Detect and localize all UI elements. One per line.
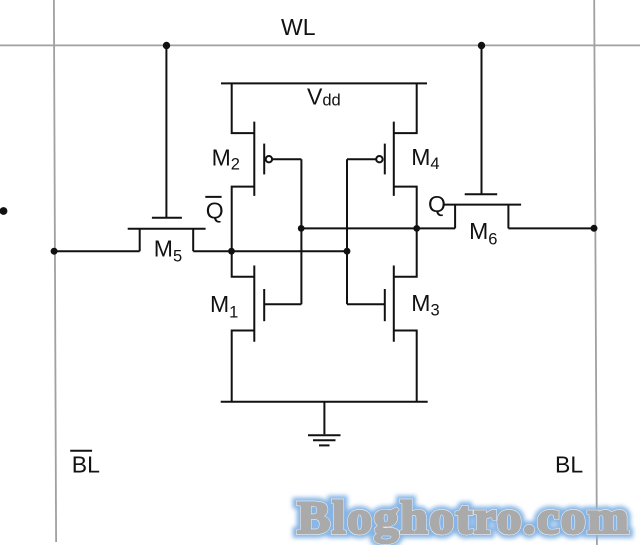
wire M3 gate lead [347, 303, 385, 305]
wire M5 left lead to BLbar [54, 250, 140, 252]
svg-text:M4: M4 [411, 144, 439, 173]
transistor M6 (pass NMOS) [443, 45, 521, 228]
watermark Bloghotro.com [297, 492, 630, 543]
ground rail [221, 401, 428, 403]
transistor M5 (pass NMOS) [128, 45, 206, 251]
wire M2 drain to node Qbar [232, 187, 255, 277]
ground [308, 402, 341, 446]
svg-text:M6: M6 [469, 218, 497, 249]
transistor M2 (PMOS) [254, 122, 272, 196]
wire M4 drain to node Q [394, 187, 417, 277]
wire M4 source column [394, 83, 417, 133]
junction dot M6-BL [591, 225, 598, 232]
junction dot BLbar-M5 [51, 248, 58, 255]
svg-text:Vdd: Vdd [307, 84, 341, 110]
bit line BLbar (left vertical) [54, 0, 56, 542]
svg-text:BL: BL [72, 452, 100, 478]
word line WL [0, 44, 640, 46]
wire left gate column [300, 159, 302, 304]
wire lower cross-couple rail (node Qbar) [193, 250, 347, 252]
wire M2 source column [232, 83, 255, 133]
svg-text:M3: M3 [411, 290, 439, 320]
wire M3 source to ground rail [394, 331, 417, 402]
svg-text:M5: M5 [154, 235, 182, 265]
junction dot node Qbar [228, 248, 235, 255]
svg-text:M2: M2 [212, 144, 240, 173]
junction dot lower rail gate column [344, 248, 351, 255]
junction dot upper rail gate column [298, 225, 305, 232]
Vdd rail [221, 82, 427, 84]
svg-text:M1: M1 [210, 291, 238, 322]
junction dot left edge [0, 207, 7, 215]
wire M1 source to ground rail [232, 331, 255, 402]
wire M4 gate lead [347, 158, 376, 160]
wire M6 right lead to BL [508, 227, 594, 229]
svg-text:BL: BL [555, 452, 583, 478]
wire M2 gate lead [272, 158, 301, 160]
wire upper cross-couple rail (node Q) [301, 227, 455, 229]
transistor M1 (NMOS) [254, 266, 264, 342]
junction dot node Q [413, 225, 420, 232]
bit line BL (right vertical) [594, 0, 597, 545]
transistor M4 (PMOS) [376, 122, 394, 196]
svg-text:WL: WL [281, 14, 316, 40]
wire right gate column [346, 159, 348, 304]
transistor M3 (NMOS) [385, 266, 394, 342]
svg-text:Q: Q [206, 198, 224, 224]
junction dot WL-M5 [163, 42, 170, 49]
wire M1 gate lead [264, 303, 301, 305]
svg-text:Bloghotro.com: Bloghotro.com [297, 492, 630, 543]
junction dot WL-M6 [478, 42, 485, 49]
svg-text:Q: Q [428, 191, 446, 217]
